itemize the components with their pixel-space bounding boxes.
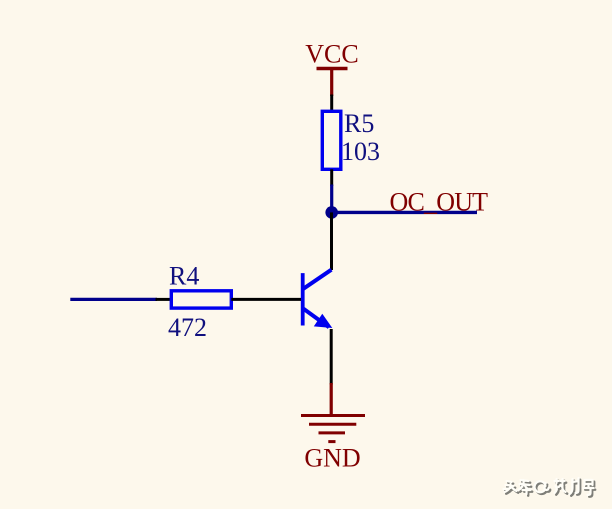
svg-text:GND: GND — [304, 444, 360, 473]
transistor Q1 collector lead — [304, 270, 332, 289]
power port VCC stem — [330, 69, 333, 97]
wire input left — [70, 298, 157, 301]
svg-text:OC_OUT: OC_OUT — [390, 187, 489, 216]
wire R5 to node — [330, 185, 333, 213]
power port GND bar 3 — [319, 431, 346, 434]
resistor R5 pin 2 — [330, 169, 333, 186]
power port GND stem — [330, 383, 333, 415]
power port VCC bar — [317, 67, 348, 70]
svg-text:R5: R5 — [344, 109, 374, 138]
svg-text:R4: R4 — [169, 261, 199, 290]
resistor R4 pin 1 — [156, 298, 172, 301]
junction node — [325, 206, 338, 219]
wire node to OC_OUT — [332, 211, 477, 214]
svg-text:VCC: VCC — [305, 40, 358, 69]
transistor Q1 emitter arrow — [314, 314, 333, 328]
resistor R4 body — [171, 291, 231, 308]
transistor Q1 base bar — [301, 273, 305, 325]
svg-text:103: 103 — [341, 137, 380, 166]
transistor Q1 emitter lead — [304, 309, 330, 328]
watermark 头条@芯片哥 — [504, 478, 596, 497]
power port GND bar 2 — [309, 423, 356, 426]
transistor Q1 emitter pin wire — [330, 329, 333, 385]
resistor R5 pin 1 — [330, 95, 333, 113]
power port GND bar 1 — [301, 414, 365, 417]
resistor R4 pin 2 / wire to base — [231, 298, 301, 301]
power port GND bar 4 — [328, 440, 335, 443]
wire node to collector — [330, 212, 333, 270]
resistor R5 body — [322, 111, 341, 169]
svg-text:472: 472 — [168, 313, 207, 342]
